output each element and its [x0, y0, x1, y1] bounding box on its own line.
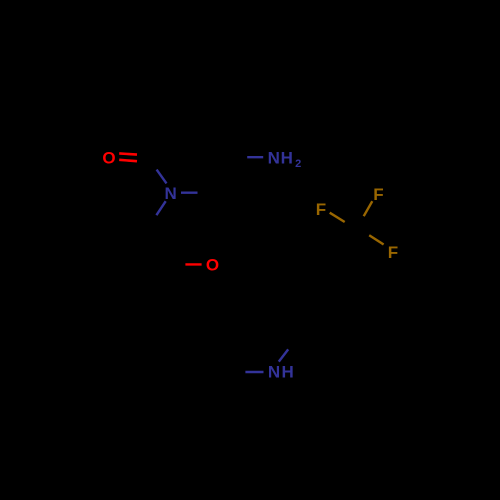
svg-text:N: N [164, 184, 176, 203]
bond C-N3 half segment horizontal left [245, 371, 263, 373]
bond C2=O1 double bond lower line [119, 160, 137, 161]
svg-text:O: O [102, 148, 115, 167]
svg-text:F: F [388, 243, 398, 262]
bond N1-C6 half segment horizontal right [181, 191, 198, 193]
bond C-F2 half segment [364, 201, 373, 216]
bond C2=O1 double bond upper line [119, 153, 137, 154]
svg-text:O: O [206, 256, 219, 275]
bond N3-C half segment up-right [279, 349, 288, 361]
bond N1-CH2 half segment down-left [156, 201, 165, 215]
svg-text:N: N [268, 363, 280, 382]
svg-text:N: N [268, 148, 280, 167]
bond C-O2 half segment horizontal [185, 263, 201, 265]
svg-text:2: 2 [295, 158, 301, 170]
bond C-F1 half segment [330, 213, 345, 222]
svg-text:H: H [281, 148, 293, 167]
svg-text:H: H [281, 363, 293, 382]
bond C-F3 half segment [369, 235, 383, 244]
bond C-NH2 half segment [247, 156, 263, 158]
svg-text:F: F [316, 200, 326, 219]
svg-text:F: F [373, 185, 383, 204]
bond N1-C2 half segment [157, 170, 167, 184]
